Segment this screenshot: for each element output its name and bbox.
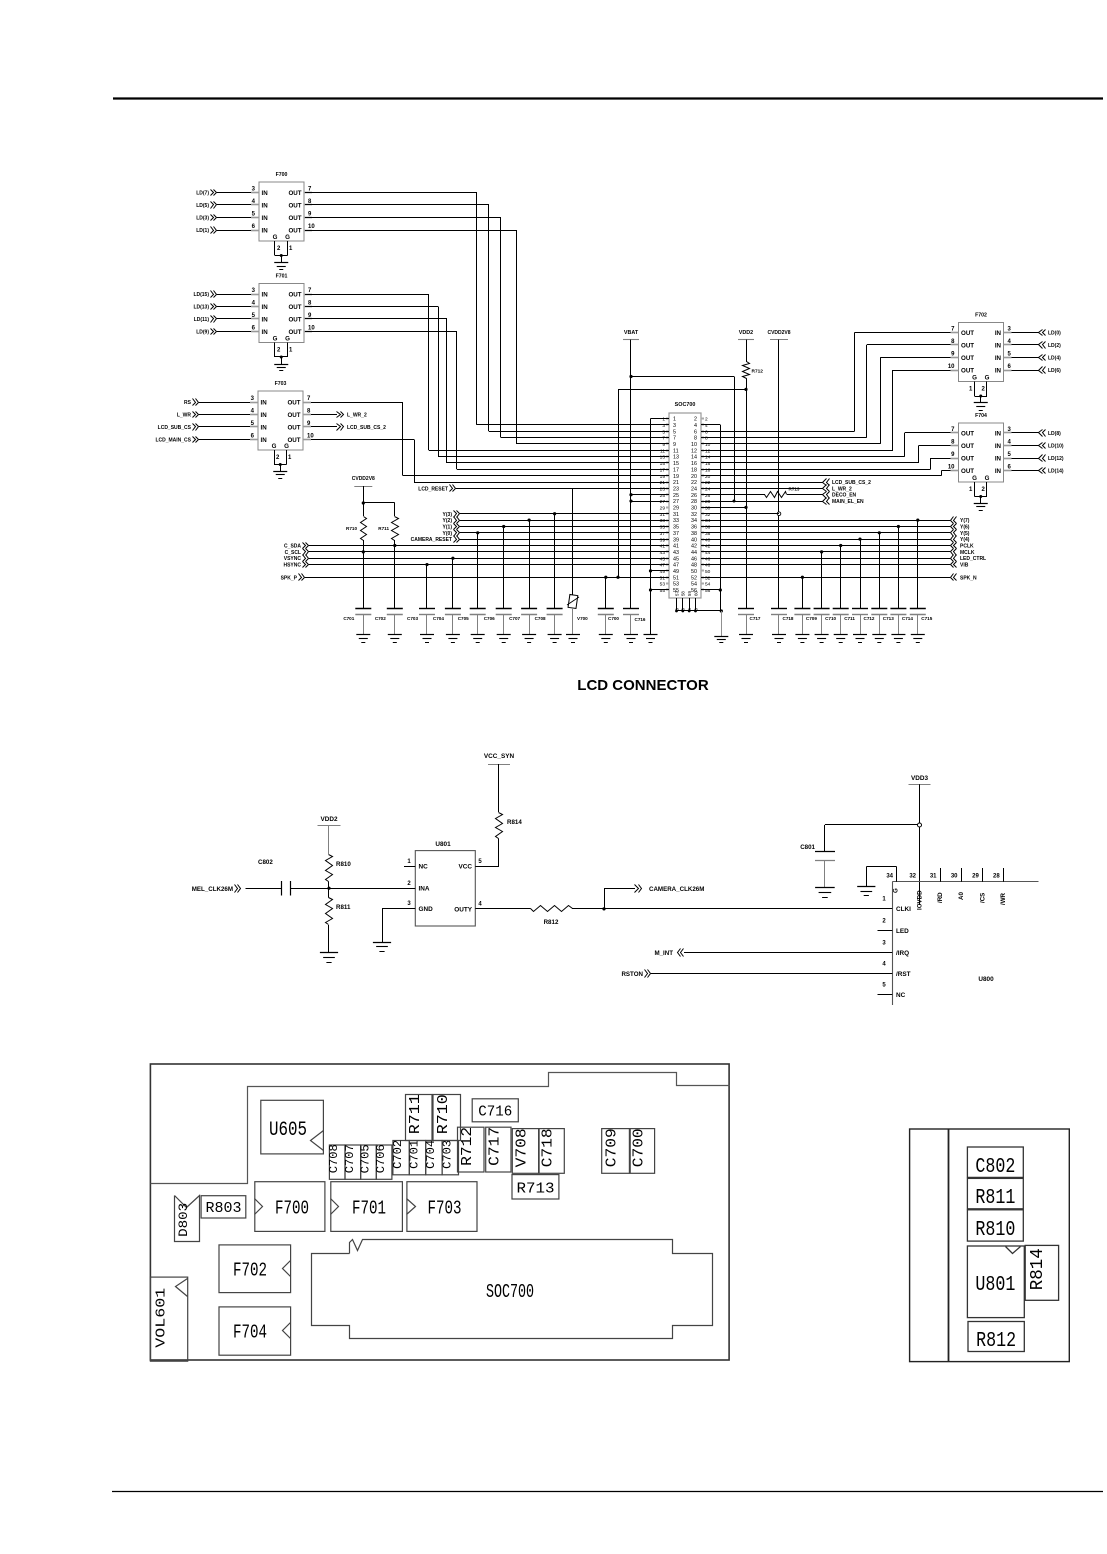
svg-text:G: G xyxy=(285,234,290,241)
svg-text:LED_CTRL: LED_CTRL xyxy=(960,556,986,562)
svg-text:CAMERA_CLK26M: CAMERA_CLK26M xyxy=(649,886,704,893)
svg-text:IN: IN xyxy=(262,190,269,197)
svg-text:C705: C705 xyxy=(458,616,469,621)
svg-text:10: 10 xyxy=(691,442,697,448)
svg-text:48: 48 xyxy=(691,563,697,569)
svg-text:SOC700: SOC700 xyxy=(486,1281,534,1303)
svg-text:OUT: OUT xyxy=(961,355,974,362)
net VIB right xyxy=(701,564,950,566)
svg-text:9: 9 xyxy=(951,351,955,357)
svg-text:LD(7): LD(7) xyxy=(196,191,209,197)
PCB part U605 xyxy=(261,1100,324,1154)
svg-text:LD(12): LD(12) xyxy=(1048,456,1064,462)
svg-text:IN: IN xyxy=(261,437,268,444)
svg-text:C704: C704 xyxy=(433,616,444,621)
svg-text:C717: C717 xyxy=(750,616,761,621)
svg-text:LD(8): LD(8) xyxy=(1048,431,1061,437)
svg-text:6: 6 xyxy=(252,224,256,230)
svg-text:5: 5 xyxy=(882,983,886,989)
wire F700 pin7 to SOC700 pin 3 xyxy=(305,192,477,194)
svg-text:SOC700: SOC700 xyxy=(675,402,696,408)
svg-text:C_SCL: C_SCL xyxy=(285,550,301,556)
svg-text:45: 45 xyxy=(660,556,666,562)
PCB part F700 xyxy=(255,1182,325,1232)
svg-text:3: 3 xyxy=(252,288,256,294)
svg-text:17: 17 xyxy=(673,467,679,473)
svg-text:4: 4 xyxy=(694,423,697,429)
PCB part F701 xyxy=(331,1182,403,1232)
PCB part C707 xyxy=(345,1145,361,1179)
svg-text:2: 2 xyxy=(407,881,411,887)
svg-text:44: 44 xyxy=(691,550,697,556)
svg-text:10: 10 xyxy=(705,442,711,448)
svg-text:30: 30 xyxy=(691,506,697,512)
svg-text:G: G xyxy=(985,475,990,482)
svg-text:16: 16 xyxy=(691,461,697,467)
svg-text:MCLK: MCLK xyxy=(960,550,975,556)
svg-text:29: 29 xyxy=(972,874,979,880)
svg-text:OUT: OUT xyxy=(288,227,301,234)
svg-text:L_WR_2: L_WR_2 xyxy=(347,413,367,419)
svg-text:A0: A0 xyxy=(958,892,965,900)
svg-text:OUT: OUT xyxy=(961,455,974,462)
svg-text:SPK_P: SPK_P xyxy=(281,575,298,581)
svg-text:27: 27 xyxy=(673,499,679,505)
PCB part VOL601 xyxy=(150,1277,187,1361)
wire F702 pin7 to SOC700 pin 6 xyxy=(855,332,951,334)
svg-text:8: 8 xyxy=(308,300,312,306)
svg-text:7: 7 xyxy=(308,186,312,192)
oscillator U801 xyxy=(415,851,475,926)
svg-text:19: 19 xyxy=(660,474,666,480)
svg-text:IN: IN xyxy=(995,455,1002,462)
svg-text:14: 14 xyxy=(691,455,697,461)
page bottom rule xyxy=(112,1491,1103,1493)
svg-text:12: 12 xyxy=(705,448,711,454)
svg-text:IN: IN xyxy=(995,430,1002,437)
svg-text:35: 35 xyxy=(660,525,666,531)
svg-text:IN: IN xyxy=(261,399,268,406)
svg-text:42: 42 xyxy=(705,544,711,550)
wire F702 pin8 to SOC700 pin 8 xyxy=(867,344,951,346)
svg-text:40: 40 xyxy=(705,537,711,543)
svg-text:39: 39 xyxy=(673,537,679,543)
svg-text:6: 6 xyxy=(694,429,697,435)
layout box right divider xyxy=(948,1129,950,1362)
PCB part C717 xyxy=(486,1127,511,1172)
svg-text:28: 28 xyxy=(705,499,711,505)
svg-text:8: 8 xyxy=(705,436,708,442)
wire F700 pin9 to SOC700 pin 7 xyxy=(305,217,501,219)
svg-text:Y(1): Y(1) xyxy=(443,524,453,530)
svg-text:C714: C714 xyxy=(902,616,913,621)
svg-text:3: 3 xyxy=(882,941,886,947)
svg-text:C703: C703 xyxy=(407,616,418,621)
capacitor C702 xyxy=(393,544,396,547)
svg-text:C710: C710 xyxy=(825,616,836,621)
PCB part R803 xyxy=(201,1196,246,1218)
svg-text:U801: U801 xyxy=(435,841,451,848)
wire VBAT wrap to right rail xyxy=(629,375,632,378)
svg-text:2: 2 xyxy=(705,417,708,423)
PCB part D803 xyxy=(175,1196,200,1242)
filter F703 xyxy=(258,391,303,450)
svg-text:G: G xyxy=(285,336,290,343)
wire SOC700 ground pins 1/49/55 rail xyxy=(651,418,670,420)
svg-text:38: 38 xyxy=(705,531,711,537)
svg-text:20: 20 xyxy=(691,474,697,480)
chip U800 outline xyxy=(892,881,1038,883)
svg-text:V708: V708 xyxy=(514,1128,531,1167)
svg-text:G: G xyxy=(273,234,278,241)
svg-text:1: 1 xyxy=(407,859,411,865)
svg-text:R712: R712 xyxy=(752,369,764,375)
svg-text:C709: C709 xyxy=(806,616,817,621)
svg-text:C715: C715 xyxy=(921,616,932,621)
svg-text:26: 26 xyxy=(691,493,697,499)
svg-text:OUT: OUT xyxy=(288,304,301,311)
PCB part C709 xyxy=(602,1129,630,1174)
svg-text:8: 8 xyxy=(951,439,955,445)
svg-text:21: 21 xyxy=(660,480,666,486)
svg-text:LCD CONNECTOR: LCD CONNECTOR xyxy=(577,677,709,694)
svg-text:LD(11): LD(11) xyxy=(194,317,210,323)
svg-text:R713: R713 xyxy=(789,487,800,492)
svg-text:19: 19 xyxy=(673,474,679,480)
svg-text:LCD_RESET: LCD_RESET xyxy=(418,486,448,492)
svg-text:LD(1): LD(1) xyxy=(196,228,209,234)
wire F704 pin10 to SOC700 pin 20 xyxy=(942,470,951,472)
svg-text:3: 3 xyxy=(251,396,255,402)
U800 pin 5 NC xyxy=(878,994,893,996)
svg-text:G: G xyxy=(985,375,990,382)
svg-text:3: 3 xyxy=(673,423,676,429)
svg-text:1: 1 xyxy=(969,387,973,393)
capacitor C705 xyxy=(476,531,479,534)
capacitor C706 xyxy=(502,525,505,528)
svg-text:49: 49 xyxy=(660,569,666,575)
svg-text:R814: R814 xyxy=(1028,1248,1048,1290)
svg-text:17: 17 xyxy=(660,467,666,473)
svg-text:49: 49 xyxy=(673,569,679,575)
svg-text:1: 1 xyxy=(289,246,293,252)
svg-text:OUT: OUT xyxy=(287,412,300,419)
svg-text:24: 24 xyxy=(705,486,711,492)
svg-text:32: 32 xyxy=(691,512,697,518)
svg-text:/WR: /WR xyxy=(1000,892,1007,905)
svg-text:C709: C709 xyxy=(604,1128,621,1167)
wire SOC700 pin 4 to bottom ground bus xyxy=(701,424,720,426)
wire VDD2 wrap rail to SPK area xyxy=(618,389,746,391)
svg-text:15: 15 xyxy=(673,461,679,467)
svg-text:F702: F702 xyxy=(975,313,987,319)
svg-text:3: 3 xyxy=(252,186,256,192)
PCB part C703 xyxy=(442,1141,458,1175)
PCB part R712 xyxy=(458,1127,485,1172)
svg-text:34: 34 xyxy=(691,518,697,524)
svg-text:54: 54 xyxy=(705,582,711,588)
svg-text:SPK_N: SPK_N xyxy=(960,575,977,581)
svg-text:F704: F704 xyxy=(975,413,987,419)
filter F700 xyxy=(259,182,304,241)
svg-text:LCD_MAIN_CS: LCD_MAIN_CS xyxy=(155,438,191,444)
svg-text:58: 58 xyxy=(681,591,686,596)
U800 pin 28 /WR xyxy=(1003,868,1005,882)
svg-text:43: 43 xyxy=(660,550,666,556)
PCB part C716 xyxy=(472,1099,518,1122)
svg-text:52: 52 xyxy=(691,575,697,581)
svg-text:40: 40 xyxy=(691,537,697,543)
svg-text:C717: C717 xyxy=(486,1127,503,1166)
svg-text:15: 15 xyxy=(660,461,666,467)
PCB part R711 xyxy=(406,1095,433,1141)
svg-text:Y(5): Y(5) xyxy=(960,531,970,537)
svg-text:23: 23 xyxy=(660,486,666,492)
svg-text:18: 18 xyxy=(705,467,711,473)
svg-text:OUT: OUT xyxy=(961,367,974,374)
PCB part C704 xyxy=(426,1141,442,1175)
svg-text:INA: INA xyxy=(419,886,430,893)
svg-text:9: 9 xyxy=(673,442,676,448)
input LD(12) to F704 xyxy=(1012,458,1040,460)
svg-text:R710: R710 xyxy=(435,1094,452,1134)
svg-text:1: 1 xyxy=(673,417,676,423)
PCB part R710 xyxy=(433,1095,461,1141)
capacitor C701 xyxy=(362,550,365,553)
svg-text:OUT: OUT xyxy=(961,342,974,349)
wire F703 pin7 to SOC700 pin 19 xyxy=(311,402,403,404)
svg-text:IN: IN xyxy=(262,202,269,209)
PCB part V708 xyxy=(512,1129,538,1174)
svg-text:36: 36 xyxy=(705,525,711,531)
svg-text:VDD3: VDD3 xyxy=(911,775,928,782)
svg-text:NC: NC xyxy=(419,864,429,871)
svg-text:/IRQ: /IRQ xyxy=(896,950,909,957)
capacitor C704 xyxy=(451,557,454,560)
svg-text:D803: D803 xyxy=(176,1203,191,1237)
net Y(4) right xyxy=(701,539,950,541)
net SPK_N xyxy=(701,577,950,579)
svg-text:28: 28 xyxy=(691,499,697,505)
svg-text:G: G xyxy=(273,336,278,343)
svg-text:LED: LED xyxy=(896,928,909,935)
svg-text:F701: F701 xyxy=(352,1198,386,1220)
input LD(2) to F702 xyxy=(1012,344,1040,346)
svg-text:LCD_SUB_CS: LCD_SUB_CS xyxy=(158,425,192,431)
net MAIN_EL_EN xyxy=(701,501,823,503)
svg-text:1: 1 xyxy=(289,348,293,354)
svg-text:43: 43 xyxy=(673,550,679,556)
svg-text:C702: C702 xyxy=(375,616,386,621)
svg-text:7: 7 xyxy=(308,288,312,294)
U800 pin 4 /RST xyxy=(878,973,893,975)
wire F704 pin9 to SOC700 pin 18 xyxy=(931,458,951,460)
svg-text:V700: V700 xyxy=(577,616,588,621)
layout part R812 xyxy=(968,1322,1024,1352)
svg-text:IN: IN xyxy=(995,443,1002,450)
wire F701 pin7 to SOC700 pin 11 xyxy=(305,294,429,296)
PCB part F702 xyxy=(219,1245,291,1293)
svg-text:30: 30 xyxy=(705,506,711,512)
svg-text:IN: IN xyxy=(262,329,269,336)
wire F704 pin7 to SOC700 pin 14 xyxy=(905,432,951,434)
svg-text:VIB: VIB xyxy=(960,563,969,569)
svg-text:11: 11 xyxy=(660,448,665,454)
svg-text:G: G xyxy=(272,443,277,450)
svg-text:L_WR: L_WR xyxy=(177,413,192,419)
svg-text:VDD2: VDD2 xyxy=(320,816,337,823)
svg-text:C_SDA: C_SDA xyxy=(284,544,301,550)
layout part C802 xyxy=(967,1147,1023,1177)
PCB part C718 xyxy=(539,1129,564,1174)
svg-text:RSTON: RSTON xyxy=(621,971,643,978)
connector SOC700 body xyxy=(669,413,701,598)
net Y(7) right xyxy=(701,520,950,522)
ground below C801 xyxy=(815,887,835,889)
filter F701 xyxy=(259,284,304,343)
layout part R810 xyxy=(967,1210,1023,1241)
svg-text:50: 50 xyxy=(691,569,697,575)
capacitor C712 xyxy=(858,538,861,541)
svg-text:C700: C700 xyxy=(608,616,619,621)
svg-text:32: 32 xyxy=(705,512,711,518)
svg-text:IN: IN xyxy=(995,367,1002,374)
svg-text:F701: F701 xyxy=(276,274,288,280)
capacitor C713 xyxy=(878,531,881,534)
svg-text:HSYNC: HSYNC xyxy=(283,563,301,569)
net DECO_EN with resistor R713 xyxy=(701,494,765,496)
svg-text:R711: R711 xyxy=(407,1094,424,1134)
svg-text:22: 22 xyxy=(691,480,697,486)
svg-text:IN: IN xyxy=(995,330,1002,337)
svg-text:9: 9 xyxy=(951,452,955,458)
PCB part C708 xyxy=(329,1145,345,1179)
svg-text:8: 8 xyxy=(307,408,311,414)
svg-text:U801: U801 xyxy=(975,1274,1015,1297)
svg-text:5: 5 xyxy=(478,859,482,865)
capacitor C703 xyxy=(425,563,428,566)
svg-text:IN: IN xyxy=(995,355,1002,362)
svg-text:LD(15): LD(15) xyxy=(193,292,209,298)
svg-text:6: 6 xyxy=(251,433,255,439)
svg-text:25: 25 xyxy=(660,493,666,499)
U800 pin 29 /CS xyxy=(982,868,984,882)
svg-text:41: 41 xyxy=(673,544,679,550)
ground below SOC700 left xyxy=(644,634,658,636)
svg-text:2: 2 xyxy=(982,487,986,493)
capacitor C700 xyxy=(604,576,607,579)
svg-text:C802: C802 xyxy=(975,1156,1015,1179)
svg-text:6: 6 xyxy=(1008,464,1012,470)
input LD(4) to F702 xyxy=(1012,357,1040,359)
svg-text:27: 27 xyxy=(660,499,666,505)
svg-text:DECO_EN: DECO_EN xyxy=(832,493,857,499)
varistor V700 xyxy=(572,488,574,595)
svg-text:7: 7 xyxy=(662,436,665,442)
svg-text:59: 59 xyxy=(687,591,692,596)
svg-text:2: 2 xyxy=(694,417,697,423)
capacitor C710 xyxy=(820,550,823,553)
input LD(0) to F702 xyxy=(1012,332,1040,334)
svg-text:C802: C802 xyxy=(258,859,273,866)
capacitor C716 xyxy=(623,608,639,610)
svg-text:9: 9 xyxy=(308,211,312,217)
svg-text:10: 10 xyxy=(948,364,955,370)
svg-text:IN: IN xyxy=(262,215,269,222)
svg-text:34: 34 xyxy=(886,874,893,880)
PCB part R713 xyxy=(512,1175,559,1199)
svg-text:Y(3): Y(3) xyxy=(443,512,453,518)
svg-text:CLKI: CLKI xyxy=(896,906,911,913)
svg-text:/RST: /RST xyxy=(896,971,911,978)
svg-text:IN: IN xyxy=(262,291,269,298)
svg-text:31: 31 xyxy=(930,874,937,880)
svg-text:C711: C711 xyxy=(844,616,855,621)
svg-text:4: 4 xyxy=(251,408,255,414)
svg-text:C701: C701 xyxy=(409,1140,422,1169)
svg-text:VOL601: VOL601 xyxy=(153,1288,169,1348)
svg-text:7: 7 xyxy=(307,396,311,402)
svg-text:LD(9): LD(9) xyxy=(196,330,209,336)
svg-text:VBAT: VBAT xyxy=(624,330,639,336)
svg-text:LD(14): LD(14) xyxy=(1048,469,1064,475)
PCB board inner outline xyxy=(151,1073,730,1184)
net LED_CTRL right xyxy=(701,558,950,560)
svg-text:OUT: OUT xyxy=(961,330,974,337)
input LD(6) to F702 xyxy=(1012,370,1040,372)
svg-text:F703: F703 xyxy=(275,381,287,387)
svg-text:3: 3 xyxy=(1008,326,1012,332)
svg-text:52: 52 xyxy=(705,575,711,581)
svg-text:3: 3 xyxy=(407,901,411,907)
svg-text:C702: C702 xyxy=(392,1140,405,1169)
svg-text:30: 30 xyxy=(951,874,958,880)
svg-text:6: 6 xyxy=(1008,364,1012,370)
net CAMERA_CLK26M branch xyxy=(602,907,605,910)
svg-text:LCD_SUB_CS_2: LCD_SUB_CS_2 xyxy=(347,425,386,431)
svg-text:33: 33 xyxy=(673,518,679,524)
capacitor C707 xyxy=(528,519,531,522)
svg-text:R810: R810 xyxy=(975,1219,1015,1242)
svg-text:26: 26 xyxy=(705,493,711,499)
layout part U801 xyxy=(967,1246,1024,1318)
svg-text:G: G xyxy=(284,443,289,450)
svg-text:14: 14 xyxy=(705,455,711,461)
svg-text:51: 51 xyxy=(660,575,666,581)
wire F700 pin8 to SOC700 pin 5 xyxy=(305,204,489,206)
net MCLK right xyxy=(701,551,950,553)
svg-text:IN: IN xyxy=(261,424,268,431)
svg-text:22: 22 xyxy=(705,480,711,486)
PCB part F704 xyxy=(219,1307,291,1355)
svg-text:4: 4 xyxy=(882,962,886,968)
pullup resistor R711 from CVDD2V8 xyxy=(363,502,395,504)
output L_WR_2 from F703 pin 8 xyxy=(311,414,337,416)
svg-text:C705: C705 xyxy=(360,1144,373,1173)
svg-text:Y(2): Y(2) xyxy=(443,518,453,524)
svg-text:8: 8 xyxy=(694,436,697,442)
svg-text:C707: C707 xyxy=(509,616,520,621)
svg-text:12: 12 xyxy=(691,448,697,454)
svg-text:60: 60 xyxy=(693,591,698,596)
svg-text:38: 38 xyxy=(691,531,697,537)
svg-text:M_INT: M_INT xyxy=(654,950,673,957)
svg-text:42: 42 xyxy=(691,544,697,550)
svg-text:3: 3 xyxy=(662,423,665,429)
capacitor C718 xyxy=(771,608,787,610)
svg-text:OUT: OUT xyxy=(288,291,301,298)
svg-text:OUT: OUT xyxy=(288,190,301,197)
